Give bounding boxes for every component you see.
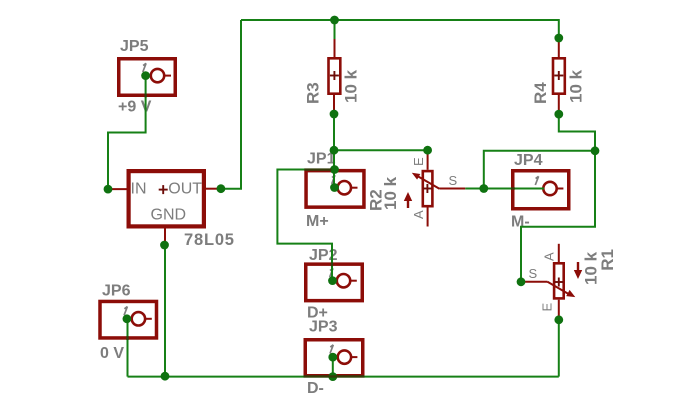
wiper arrow of R2 <box>412 173 440 189</box>
junction: wiper net / R4 dogleg tee <box>591 146 600 155</box>
junction: JP1 pin 1 <box>330 183 339 192</box>
svg-text:10 k: 10 k <box>381 176 400 210</box>
wire: overlap blend on JP5 bottom edge <box>144 94 146 98</box>
wire: overlap blend on JP2 top edge <box>331 262 333 266</box>
svg-text:78L05: 78L05 <box>184 231 235 249</box>
junction: JP1 row / R2 E wire tee <box>330 146 339 155</box>
pin number 1 of JP4 <box>535 176 538 185</box>
pin number 1 of JP5 <box>143 63 146 72</box>
svg-text:S: S <box>449 173 458 188</box>
svg-text:A: A <box>542 252 557 261</box>
origin cross of R4 <box>554 71 563 80</box>
svg-text:E: E <box>540 303 555 312</box>
connector JP3 <box>305 340 363 376</box>
wire: wiper net down and left to R1 wiper S <box>521 151 595 282</box>
svg-text:R1: R1 <box>598 249 617 271</box>
wire: overlap blend on JP4 left edge <box>511 187 515 189</box>
svg-text:10 k: 10 k <box>342 69 361 103</box>
wire: R1 pin E riser to bottom bus <box>558 320 560 377</box>
svg-text:R3: R3 <box>304 82 323 104</box>
wire: branch from JP1 column left and down to JP2 pin <box>277 170 334 281</box>
trimmer potentiometer R2 <box>423 150 466 226</box>
svg-text:JP2: JP2 <box>309 247 338 264</box>
origin cross of 78L05 <box>159 185 168 194</box>
junction: JP1 top edge tee to JP2 branch <box>330 165 339 174</box>
svg-text:D-: D- <box>307 380 324 397</box>
connector JP6 <box>100 301 157 338</box>
wire: R3 top pin drop from top bus <box>334 20 336 39</box>
junction: wiper net tee <box>479 184 488 193</box>
junction: JP2 pin 1 <box>328 276 337 285</box>
svg-text:IN: IN <box>131 181 147 198</box>
junction: JP3 riser / bottom bus <box>328 372 337 381</box>
wiper arrow of R1 <box>548 282 576 297</box>
connector JP5 <box>119 59 176 96</box>
junction: R4 top pin <box>554 34 563 43</box>
svg-text:M+: M+ <box>306 213 329 230</box>
connector JP4 (mirrored) <box>513 171 569 209</box>
resistor R3 <box>329 39 341 114</box>
wire: overlap blend on JP6 bottom edge <box>126 336 128 340</box>
wire: wiper net up and across to R4 column <box>484 151 595 189</box>
wire: overlap blend on JP1 top edge <box>304 168 331 170</box>
svg-text:GND: GND <box>151 207 187 224</box>
pin number 1 of JP6 <box>124 307 127 316</box>
svg-text:+9 V: +9 V <box>118 99 152 116</box>
wire: overlap blend on JP3 bottom edge <box>304 375 365 377</box>
svg-text:JP5: JP5 <box>120 38 149 55</box>
svg-text:JP4: JP4 <box>514 152 543 169</box>
junction: top bus / R3 <box>330 16 339 25</box>
junction: GND riser / bottom bus <box>161 372 170 381</box>
pin number 1 of JP1 <box>332 175 335 184</box>
connector JP1 <box>306 171 364 208</box>
pin number 1 of JP2 <box>330 268 333 277</box>
svg-text:E: E <box>411 157 426 166</box>
junction: 78L05 +OUT pin <box>217 184 226 193</box>
wire: JP6 pin riser to bottom bus <box>127 319 129 377</box>
wire: JP1 row across to R2 pin E <box>334 149 428 151</box>
trimmer potentiometer R1 <box>521 244 564 320</box>
svg-text:R4: R4 <box>531 82 550 104</box>
svg-text:A: A <box>411 210 426 219</box>
adjustment arrow of R1 <box>574 262 582 279</box>
junction: R3 bottom pin <box>330 110 339 119</box>
junction: R2 pin E <box>423 146 432 155</box>
voltage regulator U1 78L05 <box>108 171 221 245</box>
origin cross of R2 <box>423 184 432 193</box>
svg-text:0 V: 0 V <box>100 345 124 362</box>
junction: JP3 pin 1 <box>328 353 337 362</box>
origin cross of R3 <box>330 71 339 80</box>
origin cross of R1 <box>554 278 563 287</box>
wire: JP3 pin riser to bottom bus <box>332 357 334 377</box>
junction: JP6 pin 1 <box>123 314 132 323</box>
wire: +OUT riser from 78L05 output up to top bus <box>221 20 241 189</box>
wire: 78L05 GND down to bottom bus <box>164 245 166 377</box>
wire: bottom bus <box>128 376 559 378</box>
wire: top bus from left corner to R4 <box>241 20 559 38</box>
junction: R1 pin S <box>517 277 526 286</box>
svg-text:S: S <box>529 266 538 281</box>
junction: R1 pin E <box>554 315 563 324</box>
resistor R4 <box>553 38 565 114</box>
svg-text:10 k: 10 k <box>567 69 586 103</box>
svg-text:JP3: JP3 <box>309 319 338 336</box>
junction: R4 bottom pin <box>554 110 563 119</box>
junction: 78L05 GND pin <box>160 241 169 250</box>
connector JP2 <box>306 264 363 301</box>
svg-text:JP6: JP6 <box>102 283 131 300</box>
junction: JP5 pin 1 <box>141 71 150 80</box>
wire: JP5 pin down and left to 78L05 IN <box>108 76 146 190</box>
adjustment arrow of R2 <box>404 192 412 208</box>
junction: 78L05 IN pin <box>104 185 113 194</box>
wire: R3 bottom down to JP1 pin <box>333 114 335 188</box>
wire: R4 bottom dogleg to wiper net <box>559 114 595 151</box>
pin number 1 of JP3 <box>330 345 333 354</box>
svg-text:OUT: OUT <box>168 181 202 198</box>
wire: R2 wiper S across to JP4 pin <box>465 188 544 190</box>
